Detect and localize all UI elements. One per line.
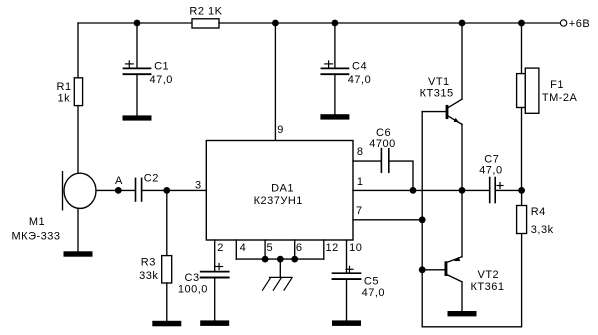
node junction pin 9 / top rail	[272, 20, 279, 27]
svg-text:47,0: 47,0	[479, 165, 502, 177]
wire bases line	[421, 112, 423, 327]
svg-text:C1: C1	[154, 60, 169, 72]
wire bottom return rail	[422, 234, 521, 327]
node junction C7 / F1 / R4	[518, 187, 525, 194]
wire microphone to ground	[77, 208, 79, 251]
svg-text:4: 4	[240, 242, 247, 254]
wire node to R4	[521, 190, 523, 205]
svg-text:7: 7	[356, 205, 363, 217]
svg-text:M1: M1	[29, 216, 45, 228]
capacitor C4	[321, 60, 371, 86]
pin 10 stub	[347, 240, 363, 273]
svg-text:33k: 33k	[139, 270, 158, 282]
svg-text:F1: F1	[550, 79, 564, 91]
wire rail to C4	[334, 23, 336, 68]
svg-text:C4: C4	[352, 60, 367, 72]
node junction F1 / top rail	[518, 20, 525, 27]
ground C5	[332, 320, 361, 326]
svg-text:5: 5	[267, 242, 274, 254]
wire rail to F1	[521, 23, 523, 74]
wire C7 to node	[496, 189, 521, 191]
ground C4	[320, 114, 349, 119]
svg-text:6: 6	[296, 242, 303, 254]
ground C1	[123, 115, 152, 120]
capacitor C6	[369, 127, 395, 173]
ground R3	[152, 321, 181, 327]
microphone M1	[12, 172, 97, 243]
node junction R3	[163, 187, 170, 194]
svg-text:К237УН1: К237УН1	[254, 195, 303, 207]
node junction VT2 base	[419, 266, 426, 273]
svg-text:100,0: 100,0	[178, 284, 208, 296]
node junction pin 7 / bases line	[419, 216, 426, 223]
transistor Q1 VT1	[420, 23, 462, 190]
pin 2 stub	[215, 240, 224, 271]
svg-text:1k: 1k	[58, 93, 71, 105]
pin 5 stub	[265, 240, 273, 259]
resistor R3	[139, 256, 172, 283]
wire R1 to microphone	[77, 106, 79, 174]
node A	[115, 175, 123, 194]
svg-text:12: 12	[326, 242, 339, 254]
svg-text:+6В: +6В	[569, 18, 590, 30]
svg-text:R3: R3	[141, 257, 156, 269]
wire pin 1 line	[353, 176, 489, 191]
node junction C6 / pin 1	[410, 187, 417, 194]
wire C3 to ground	[214, 278, 216, 321]
svg-text:VT1: VT1	[428, 76, 450, 88]
wire rail to R1	[77, 23, 79, 78]
capacitor C2	[136, 173, 159, 201]
node junction VT1 collector / top rail	[459, 20, 466, 27]
wire microphone to C2	[96, 189, 135, 191]
wire pin 7	[353, 205, 422, 220]
ground microphone	[64, 251, 93, 256]
wire C4 to ground	[334, 74, 336, 114]
wire top rail right segment	[219, 22, 561, 24]
svg-text:ТМ-2А: ТМ-2А	[542, 92, 578, 104]
svg-text:47,0: 47,0	[362, 287, 385, 299]
svg-text:КТ361: КТ361	[471, 281, 505, 293]
svg-text:C5: C5	[364, 275, 379, 287]
wire C2 to pin 3	[142, 189, 206, 191]
pin 6 stub	[295, 240, 303, 259]
wire C5 to ground	[346, 279, 348, 320]
node junction emitters / pin 1	[459, 187, 466, 194]
resistor R2	[189, 6, 222, 28]
wire C6 to pin 1 line	[389, 161, 413, 190]
pin 12 stub	[324, 240, 339, 259]
svg-text:A: A	[115, 175, 123, 187]
svg-text:R2 1K: R2 1K	[189, 6, 222, 18]
node junction pin 5 / bus	[262, 256, 269, 263]
svg-text:DA1: DA1	[271, 183, 294, 195]
node junction ground stem / bus	[277, 256, 284, 263]
svg-text:C2: C2	[144, 173, 159, 185]
svg-text:R4: R4	[531, 206, 546, 218]
wire ground bus pins 4-12	[236, 258, 323, 260]
ground C3	[200, 320, 229, 326]
svg-text:C3: C3	[185, 272, 200, 284]
wire C1 to ground	[136, 74, 138, 115]
node junction C1 / top rail	[134, 20, 141, 27]
svg-text:3: 3	[195, 179, 202, 191]
capacitor C5	[333, 266, 386, 299]
op-amp U1 IC DA1	[206, 141, 353, 241]
svg-text:3,3k: 3,3k	[531, 224, 554, 236]
wire bus to chassis ground	[279, 259, 281, 277]
wire F1 to node	[521, 108, 523, 191]
svg-text:4700: 4700	[369, 138, 395, 150]
capacitor C3	[178, 264, 229, 296]
svg-text:КТ315: КТ315	[420, 88, 454, 100]
svg-text:R1: R1	[57, 81, 72, 93]
resistor R4	[517, 206, 554, 237]
node junction pin 6 / bus	[291, 256, 298, 263]
svg-text:47,0: 47,0	[150, 74, 173, 86]
svg-text:47,0: 47,0	[348, 74, 371, 86]
svg-text:2: 2	[217, 242, 224, 254]
transistor Q2 VT2	[422, 190, 504, 311]
ground VT2	[448, 311, 477, 316]
svg-text:1: 1	[357, 176, 364, 188]
node junction C4 / top rail	[332, 20, 339, 27]
wire top rail left segment	[78, 22, 192, 24]
wire R3 to ground	[166, 283, 168, 321]
capacitor C1	[124, 60, 173, 86]
svg-text:8: 8	[357, 146, 364, 158]
svg-text:9: 9	[277, 124, 284, 136]
wire node to R3	[166, 190, 168, 255]
svg-text:VT2: VT2	[478, 269, 500, 281]
svg-text:МКЭ-333: МКЭ-333	[12, 231, 61, 243]
power terminal +6B	[560, 18, 590, 30]
resistor R1	[57, 78, 83, 106]
wire rail to C1	[136, 23, 138, 68]
wire pin 8 to C6	[353, 146, 381, 161]
svg-text:10: 10	[349, 242, 362, 254]
capacitor C7	[479, 154, 503, 203]
chassis ground	[263, 277, 293, 290]
wire pin 9	[275, 23, 283, 141]
telephone capsule F1	[517, 68, 578, 113]
pin 4 stub	[236, 240, 246, 259]
